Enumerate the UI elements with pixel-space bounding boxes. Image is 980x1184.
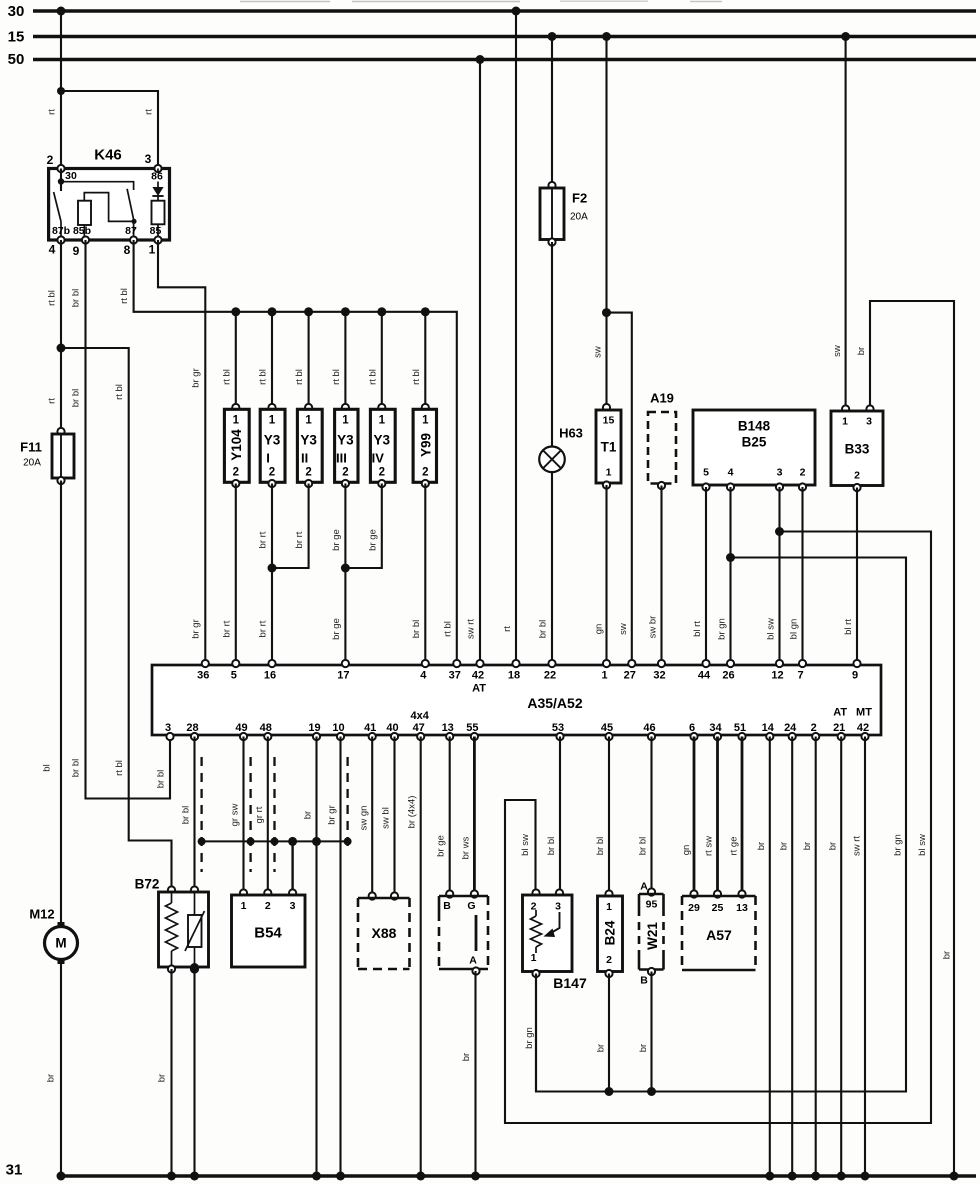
svg-text:br bl: br bl — [71, 389, 82, 407]
svg-text:2: 2 — [379, 467, 385, 479]
lamp H63 — [539, 426, 583, 473]
wire rt bl to Y99 — [411, 312, 426, 409]
svg-text:B: B — [640, 975, 648, 987]
svg-text:30: 30 — [8, 3, 25, 20]
svg-text:85: 85 — [150, 225, 162, 237]
bus 50 — [33, 58, 976, 62]
wire br from B33 pin 3 to bus 31 — [856, 301, 954, 1176]
node option x201 — [198, 837, 206, 845]
svg-text:rt bl: rt bl — [221, 369, 232, 385]
svg-text:br bl: br bl — [538, 620, 549, 638]
K46 pin 9 terminal — [73, 236, 89, 258]
svg-text:II: II — [301, 451, 308, 466]
node on bus 31 x340 — [336, 1172, 345, 1181]
node on bus 31 x194 — [190, 1172, 199, 1181]
dashed option wire x274 — [273, 757, 275, 872]
wire br bl Y99 to A35 pin 4 — [411, 484, 426, 665]
svg-text:48: 48 — [260, 722, 272, 734]
svg-text:85b: 85b — [73, 225, 91, 237]
svg-text:br gr: br gr — [191, 619, 202, 639]
K46 internal coil 85 — [150, 201, 165, 240]
svg-text:rt bl: rt bl — [294, 369, 305, 385]
svg-text:sw bl: sw bl — [381, 807, 392, 829]
svg-text:B24: B24 — [603, 920, 618, 945]
connector A19 — [648, 391, 676, 490]
wire br ge A35 pin 13 to X1 B — [436, 737, 450, 895]
wire sw br from A19 to A35 pin 32 — [648, 486, 662, 665]
svg-text:K46: K46 — [94, 147, 122, 164]
svg-text:gr rt: gr rt — [254, 806, 265, 823]
wire sw rt A35 pin 42 MT to bus 31 — [852, 737, 866, 1177]
node junction x316 y841 — [312, 837, 321, 846]
A35 label MT above pin 42 — [856, 707, 872, 719]
ignition coil T1 — [596, 404, 621, 489]
node junction x730 y557 — [726, 553, 735, 562]
sensor B24 — [598, 890, 623, 977]
svg-text:1: 1 — [342, 415, 349, 427]
svg-text:rt ge: rt ge — [729, 836, 740, 855]
svg-text:47: 47 — [413, 722, 425, 734]
solenoid valve Y3 II — [297, 404, 322, 487]
wire br bl from H63 to A35 pin 22 — [538, 472, 553, 664]
svg-text:br bl: br bl — [546, 837, 557, 855]
wire br rt Y3 II joins Y3 I — [272, 484, 309, 569]
svg-text:br ge: br ge — [331, 618, 342, 640]
svg-text:28: 28 — [186, 722, 198, 734]
svg-text:B25: B25 — [742, 435, 767, 450]
svg-text:2: 2 — [305, 467, 311, 479]
svg-text:sw gn: sw gn — [359, 806, 370, 831]
svg-text:25: 25 — [712, 902, 724, 914]
wire gn from T1 to A35 pin 1 — [594, 485, 607, 664]
svg-text:br rt: br rt — [294, 531, 305, 548]
A35 bottom pin terminals — [166, 733, 868, 740]
svg-text:rt bl: rt bl — [331, 369, 342, 385]
wire rt sw A35 pin 34 to A57 pin 25 — [704, 737, 718, 895]
wire br ge Y3 IV joins Y3 III — [345, 484, 381, 569]
svg-text:gr sw: gr sw — [230, 804, 241, 827]
svg-text:br rt: br rt — [258, 620, 269, 637]
A35 top pin terminals — [202, 660, 861, 667]
resistor unit B72 — [135, 877, 209, 973]
solenoid valve Y3 III — [335, 404, 358, 487]
K46 pin 8 terminal — [124, 236, 138, 257]
dashed option wire x250 — [249, 757, 251, 872]
bus 30 — [33, 9, 976, 13]
node y568 Y3 III/IV join — [341, 564, 350, 573]
wire rt bl to Y3 IV — [367, 312, 382, 409]
wire br bl A35 pin 46 to W21 pin 95 — [638, 737, 652, 893]
node on bus 30 at x61 — [57, 7, 66, 16]
svg-text:49: 49 — [235, 722, 247, 734]
wire sw rt from bus 50 to A35 pin 42 — [466, 60, 481, 665]
wire br W21 B down — [638, 972, 652, 1092]
svg-text:51: 51 — [734, 722, 746, 734]
svg-text:1: 1 — [842, 416, 848, 428]
svg-text:55: 55 — [466, 722, 478, 734]
svg-text:bl rt: bl rt — [692, 621, 703, 637]
svg-text:1: 1 — [305, 415, 312, 427]
svg-text:sw: sw — [618, 623, 629, 635]
svg-text:50: 50 — [8, 51, 25, 68]
svg-text:40: 40 — [386, 722, 398, 734]
svg-text:sw br: sw br — [648, 616, 659, 639]
svg-text:1: 1 — [379, 415, 386, 427]
svg-text:A35/A52: A35/A52 — [527, 695, 582, 711]
node Y3 II tap — [304, 307, 313, 316]
svg-text:2: 2 — [47, 153, 54, 167]
svg-text:br bl: br bl — [638, 837, 649, 855]
svg-text:31: 31 — [6, 1162, 23, 1179]
node junction x606 y312 — [602, 308, 611, 317]
svg-text:br: br — [461, 1053, 472, 1061]
svg-text:MT: MT — [856, 707, 872, 719]
svg-text:53: 53 — [552, 722, 564, 734]
svg-text:AT: AT — [833, 707, 847, 719]
node stub B54 — [288, 837, 297, 846]
svg-text:1: 1 — [606, 901, 612, 913]
dashed option wire x347 — [346, 757, 348, 848]
K46 internal diode — [151, 169, 163, 201]
node on bus 31 x815 — [811, 1172, 820, 1181]
A35 top pin numbers — [197, 670, 858, 682]
bus 30 label — [8, 3, 25, 20]
svg-text:bl: bl — [42, 764, 53, 771]
svg-text:Y3: Y3 — [300, 433, 317, 448]
svg-text:W21: W21 — [645, 922, 660, 950]
svg-text:br bl: br bl — [71, 289, 82, 307]
svg-text:A: A — [640, 881, 648, 893]
svg-text:sw: sw — [593, 346, 604, 358]
wire sw branch to A35 pin 27 — [607, 313, 632, 664]
svg-text:2: 2 — [233, 467, 239, 479]
wire br B24 pin 2 down — [596, 974, 610, 1092]
svg-text:rt: rt — [47, 109, 58, 115]
svg-text:42: 42 — [857, 722, 869, 734]
node on bus 31 x841 — [837, 1172, 846, 1181]
svg-text:B147: B147 — [553, 975, 587, 991]
svg-text:rt: rt — [502, 626, 513, 632]
svg-text:br: br — [303, 811, 314, 819]
svg-text:16: 16 — [264, 670, 276, 682]
svg-text:bl sw: bl sw — [766, 618, 777, 640]
node on bus 15 at x552 — [548, 32, 557, 41]
bus 15 — [33, 35, 976, 39]
svg-text:br gr: br gr — [191, 368, 202, 388]
svg-text:br bl: br bl — [411, 620, 422, 638]
svg-text:3: 3 — [555, 901, 561, 913]
node Y104 tap — [231, 307, 240, 316]
node on bus 31 x792 — [788, 1172, 797, 1181]
svg-text:32: 32 — [653, 670, 665, 682]
node option x274 — [271, 837, 279, 845]
svg-text:B33: B33 — [845, 442, 870, 457]
svg-text:rt sw: rt sw — [704, 836, 715, 856]
svg-text:2: 2 — [342, 467, 348, 479]
bus 50 label — [8, 51, 25, 68]
K46 pin 4 terminal — [49, 236, 65, 256]
svg-text:34: 34 — [709, 722, 722, 734]
node junction x779 y531 — [775, 527, 784, 536]
svg-text:4: 4 — [420, 670, 427, 682]
svg-text:5: 5 — [703, 467, 709, 479]
svg-text:H63: H63 — [559, 426, 583, 441]
svg-text:bl gn: bl gn — [789, 619, 800, 640]
svg-text:br gn: br gn — [524, 1027, 535, 1049]
svg-text:gn: gn — [681, 845, 692, 856]
fuse F2 — [540, 182, 588, 246]
node option x347 — [344, 837, 352, 845]
svg-text:5: 5 — [231, 670, 237, 682]
svg-text:bl sw: bl sw — [520, 834, 531, 856]
svg-text:17: 17 — [337, 670, 349, 682]
control unit B148 B25 — [693, 410, 815, 491]
svg-text:13: 13 — [442, 722, 454, 734]
A35 label AT under top pin 42 — [472, 683, 486, 695]
svg-text:1: 1 — [531, 952, 537, 964]
wire br gn from node y557 to B147/B24/W21 — [524, 558, 906, 1092]
node Y99 tap — [421, 307, 430, 316]
node on bus 31 at x61 — [57, 1172, 66, 1181]
svg-text:18: 18 — [508, 670, 520, 682]
svg-text:br gn: br gn — [717, 618, 728, 640]
svg-text:br: br — [779, 842, 790, 850]
svg-text:X88: X88 — [372, 925, 397, 941]
glow plug W21 — [639, 881, 664, 987]
svg-text:rt: rt — [144, 109, 155, 115]
svg-text:1: 1 — [601, 670, 607, 682]
wire rt bl to Y3 III — [331, 312, 346, 409]
svg-text:1: 1 — [269, 415, 276, 427]
svg-text:15: 15 — [603, 415, 615, 427]
option bus y841 — [202, 840, 348, 842]
stub to B54 pin 3 — [291, 841, 293, 893]
svg-text:1: 1 — [149, 243, 156, 257]
K46 pin 2 terminal — [47, 153, 65, 172]
svg-text:III: III — [336, 451, 347, 466]
svg-text:B148: B148 — [738, 419, 771, 434]
wire from bus 15 to fuse F2 — [551, 37, 553, 187]
svg-text:Y3: Y3 — [337, 433, 354, 448]
svg-text:rt bl: rt bl — [443, 621, 454, 637]
svg-text:3: 3 — [290, 900, 296, 912]
node on bus 50 at x480 — [476, 55, 485, 64]
svg-text:T1: T1 — [601, 440, 617, 455]
svg-text:1: 1 — [606, 467, 612, 479]
node junction x61 y91 — [57, 87, 65, 95]
node junction x652 y1091 — [647, 1087, 656, 1096]
node Y3 III tap — [341, 307, 350, 316]
svg-text:9: 9 — [852, 670, 858, 682]
svg-text:2: 2 — [854, 470, 860, 482]
svg-text:AT: AT — [472, 683, 486, 695]
K46 pin 1 terminal — [149, 236, 162, 256]
wire br ge Y3 III to A35 pin 17 — [331, 484, 346, 665]
motor M12 — [29, 907, 77, 965]
svg-text:br bl: br bl — [595, 837, 606, 855]
svg-text:br (4x4): br (4x4) — [407, 796, 418, 829]
svg-text:F11: F11 — [20, 440, 42, 455]
relay K46 box — [49, 147, 170, 241]
svg-text:M: M — [55, 936, 66, 951]
svg-text:9: 9 — [73, 244, 80, 258]
svg-text:br: br — [157, 1074, 168, 1082]
K46 internal contact 87 — [125, 189, 137, 240]
node on bus 31 x769 — [765, 1172, 774, 1181]
svg-text:4: 4 — [49, 243, 56, 257]
svg-text:42: 42 — [472, 670, 484, 682]
wire gr rt A35 pin 48 to B54 pin 2 — [254, 737, 268, 894]
svg-text:br ge: br ge — [436, 835, 447, 857]
svg-text:Y99: Y99 — [418, 433, 433, 457]
svg-text:B54: B54 — [254, 925, 282, 942]
node on bus 15 at x845 — [841, 32, 850, 41]
svg-text:sw rt: sw rt — [466, 619, 477, 639]
svg-text:2: 2 — [265, 900, 271, 912]
svg-text:2: 2 — [422, 467, 428, 479]
svg-text:br ge: br ge — [367, 529, 378, 551]
svg-text:br bl: br bl — [71, 759, 82, 777]
svg-text:br: br — [756, 842, 767, 850]
svg-text:rt bl: rt bl — [114, 760, 125, 776]
wire br gr from K46 pin 1 to A35 pin 36 — [158, 240, 205, 664]
svg-text:87b: 87b — [52, 225, 70, 237]
wire br from M12 to bus 31 — [46, 962, 62, 1176]
svg-text:gn: gn — [594, 624, 605, 635]
node junction x61 y348 — [57, 344, 66, 353]
svg-text:br ws: br ws — [461, 836, 472, 859]
node on bus 31 x865 — [861, 1172, 870, 1181]
wire br gn B147 pin1 down — [535, 974, 537, 1092]
bus 31 label — [6, 1162, 23, 1179]
wire br A35 pin 14 to bus 31 — [756, 737, 770, 1177]
svg-text:86: 86 — [151, 171, 163, 183]
svg-text:20A: 20A — [23, 458, 41, 469]
svg-text:14: 14 — [762, 722, 775, 734]
svg-text:br rt: br rt — [258, 531, 269, 548]
svg-text:br bl: br bl — [156, 770, 167, 788]
svg-text:4: 4 — [728, 467, 734, 479]
wire br bl A35 pin 53 to B147 pin 3 — [546, 737, 560, 894]
wire bl from F11 to M12 — [42, 481, 62, 925]
svg-text:2: 2 — [811, 722, 817, 734]
svg-text:1: 1 — [233, 415, 240, 427]
wire B72 right to bus 31 — [193, 969, 195, 1176]
bus 31 — [57, 1174, 976, 1177]
node on bus 31 x420 — [416, 1172, 425, 1181]
svg-text:br: br — [596, 1044, 607, 1052]
solenoid valve Y3 IV — [370, 404, 395, 487]
wire br A35 pin 21 to bus 31 — [828, 737, 842, 1177]
wire rt bl to Y104 — [221, 312, 236, 409]
node on bus 31 x316 — [312, 1172, 321, 1181]
wire br ws A35 pin 55 to X1 G — [461, 737, 475, 895]
svg-text:Y104: Y104 — [229, 429, 244, 461]
svg-text:br: br — [802, 842, 813, 850]
svg-text:br gn: br gn — [893, 834, 904, 856]
node Y3 I tap — [268, 307, 277, 316]
K46 internal contact 30 — [52, 169, 134, 241]
svg-text:4x4: 4x4 — [411, 710, 430, 722]
sensor B54 — [232, 889, 306, 967]
connector X88 — [358, 892, 410, 969]
svg-text:13: 13 — [736, 902, 748, 914]
svg-text:87: 87 — [125, 225, 137, 237]
svg-text:24: 24 — [784, 722, 797, 734]
wire br rt Y104 to A35 pin 5 — [222, 484, 236, 665]
wire rt bl to Y3 II — [294, 312, 309, 409]
svg-text:30: 30 — [65, 170, 77, 182]
svg-text:6: 6 — [689, 722, 695, 734]
svg-text:A57: A57 — [706, 927, 732, 943]
svg-text:rt: rt — [47, 398, 58, 404]
wire gr sw A35 pin 49 to B54 pin 1 — [230, 737, 244, 894]
K46 pin 3 terminal — [145, 152, 162, 172]
wire rt from bus 30 to K46 pin 2 — [47, 11, 62, 167]
wire br B72 to bus 31 — [157, 969, 172, 1176]
dashed option wire x201 — [200, 757, 202, 872]
sensor B33 — [831, 405, 883, 491]
svg-text:rt bl: rt bl — [367, 369, 378, 385]
svg-text:21: 21 — [833, 722, 845, 734]
svg-text:36: 36 — [197, 670, 209, 682]
svg-text:1: 1 — [241, 900, 247, 912]
node on bus 31 at x954 — [950, 1172, 959, 1181]
connector X1 — [439, 890, 488, 974]
wire rt bl from K46 pin 4 — [47, 240, 62, 433]
svg-text:1: 1 — [422, 415, 429, 427]
control unit A35/A52 box — [152, 665, 881, 735]
wire bl rt B148 pin5 to A35 pin 44 — [692, 487, 706, 664]
node on bus 31 x171 — [167, 1172, 176, 1181]
svg-text:7: 7 — [797, 670, 803, 682]
node y568 Y3 I/II join — [268, 564, 277, 573]
solenoid valve Y104 — [224, 404, 249, 487]
svg-text:F2: F2 — [572, 191, 587, 206]
svg-text:bl rt: bl rt — [843, 619, 854, 635]
wire br bl A35 pin 45 to B24 pin 1 — [595, 737, 609, 895]
svg-text:sw: sw — [832, 345, 843, 357]
svg-text:br: br — [638, 1044, 649, 1052]
svg-text:A19: A19 — [650, 391, 674, 406]
wire br bl A35 pin 28 to B72 — [181, 737, 195, 891]
sender B147 — [523, 889, 587, 991]
svg-text:46: 46 — [643, 722, 655, 734]
wire br A35 pin 24 to bus 31 — [779, 737, 793, 1177]
wire br 4x4 A35 pin 47 to bus 31 — [407, 737, 421, 1177]
wire rt bl to Y3 I — [258, 312, 273, 409]
wire br gn B148 pin4 to A35 pin 26 — [717, 487, 731, 664]
wire rt branch to K46 pin 3 — [61, 91, 158, 167]
wire rt from bus 30 to A35 pin 18 — [502, 11, 516, 664]
scan artifact top edge — [240, 0, 722, 2]
svg-text:12: 12 — [771, 670, 783, 682]
wire br A35 pin 19 to bus 31 — [303, 737, 317, 1177]
svg-text:br: br — [856, 347, 867, 355]
svg-text:41: 41 — [364, 722, 376, 734]
svg-text:rt bl: rt bl — [258, 369, 269, 385]
svg-text:3: 3 — [165, 722, 171, 734]
svg-text:15: 15 — [8, 29, 25, 46]
svg-text:M12: M12 — [29, 907, 54, 922]
svg-text:br: br — [828, 842, 839, 850]
control unit A57 — [682, 890, 756, 970]
node junction x609 y1091 — [605, 1087, 614, 1096]
K46 internal coil 85b — [73, 193, 134, 240]
svg-text:2: 2 — [606, 954, 612, 966]
wire bl sw from node y531 to B147 pin 2 — [505, 532, 931, 1124]
svg-text:A: A — [469, 955, 477, 967]
